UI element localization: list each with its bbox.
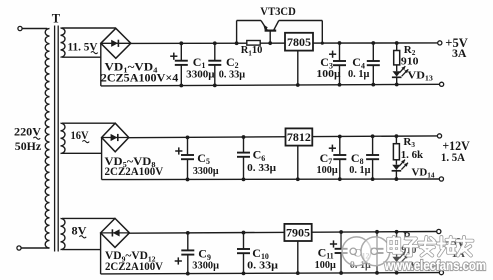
capacitor C8 0.1u <box>366 136 379 179</box>
label 2CZ2A100V (ch3) <box>105 261 164 273</box>
label VD15 <box>410 260 435 273</box>
node C2 bottom <box>213 83 217 87</box>
label VD1~VD4 <box>105 62 158 75</box>
polarity + of C9 <box>175 257 182 264</box>
svg-text:3300μ: 3300μ <box>186 69 215 81</box>
svg-text:2CZ2A100V: 2CZ2A100V <box>105 261 164 273</box>
polarity + of C5 <box>175 147 182 154</box>
bridge rectifier VD1-VD4 <box>101 28 131 58</box>
node C10 bottom <box>242 271 246 275</box>
label 220V 50Hz <box>14 124 42 153</box>
capacitor C11 100u <box>335 232 348 273</box>
label C11 <box>318 245 334 260</box>
label VD9~VD12 <box>105 250 156 263</box>
secondary winding 11.5V <box>61 28 66 57</box>
wire primary bottom to input terminal <box>21 247 49 249</box>
polarity + of C3 <box>329 51 336 58</box>
node VD14 ground <box>395 177 399 181</box>
wire ch3 negative rail <box>129 232 437 234</box>
input terminal bottom (220V line) <box>17 246 21 250</box>
output terminal ch1 return <box>440 82 444 86</box>
svg-text:7905: 7905 <box>286 226 310 240</box>
svg-text:16V: 16V <box>71 128 89 142</box>
svg-text:220V: 220V <box>14 124 41 138</box>
node C12 bottom <box>375 271 379 275</box>
capacitor C2 0.33u <box>208 43 221 85</box>
node C3 top <box>338 41 342 45</box>
output terminal -5V <box>437 229 441 233</box>
output terminal +12V <box>437 134 441 138</box>
transformer label T <box>52 11 61 25</box>
label R3 <box>403 136 415 149</box>
label C2 <box>226 55 239 70</box>
svg-text:3A: 3A <box>452 46 467 60</box>
wire ch2 positive rail <box>129 136 438 138</box>
secondary winding 8V <box>61 218 66 249</box>
LED VD14 <box>392 165 402 171</box>
capacitor C6 0.33u <box>237 137 250 179</box>
node C4 bottom <box>371 83 375 87</box>
capacitor C1 3300u <box>175 43 188 85</box>
value 3300u (C1) <box>186 69 215 81</box>
svg-text:2CZ5A100V×4: 2CZ5A100V×4 <box>101 73 179 85</box>
label 2CZ2A100V (ch2) <box>105 166 164 178</box>
node C12 top <box>375 230 379 234</box>
label VD5~VD8 <box>105 156 156 169</box>
label 3A <box>452 46 467 60</box>
value 910 (R4) <box>401 244 417 256</box>
wire R4 to VD15 <box>396 252 398 257</box>
label VD14 <box>412 167 435 180</box>
wire ch1 ground rail <box>101 84 440 86</box>
node R2 top <box>395 41 399 45</box>
value 910 (R2) <box>401 56 419 68</box>
capacitor C10 0.33u <box>237 233 250 274</box>
wire VD13 to ground rail <box>396 77 398 84</box>
wire 7905 ground pin <box>297 241 299 273</box>
polarity + of C7 <box>329 145 336 152</box>
label C7 <box>320 151 333 166</box>
svg-text:100μ: 100μ <box>315 259 337 271</box>
capacitor C4 0.1u <box>367 43 380 85</box>
resistor R2 910 <box>394 51 400 65</box>
wire R2 top lead <box>396 43 398 51</box>
node C7 bottom <box>338 177 342 181</box>
svg-text:T: T <box>52 11 61 25</box>
node 7905 ground <box>296 271 300 275</box>
label +12V <box>442 138 470 153</box>
node C8 top <box>371 134 375 138</box>
transistor VT 3CD (PNP pass) <box>261 21 279 44</box>
value 0.1u (C8) <box>349 164 371 176</box>
LED VD13 light arrows <box>400 66 409 76</box>
value 0.33u (C10) <box>247 259 279 271</box>
watermark (site logo and text, decorative overlay) <box>341 234 491 273</box>
label R1 10 <box>241 45 263 57</box>
svg-text:0. 33μ: 0. 33μ <box>247 259 279 271</box>
LED VD15 light arrows <box>399 252 408 262</box>
label 8V <box>72 223 87 238</box>
secondary winding 16V <box>61 123 66 153</box>
node C1 bottom <box>179 84 183 88</box>
value 3300u (C9) <box>192 259 219 271</box>
label +5V <box>445 35 468 50</box>
wire ch1 positive rail <box>131 42 438 45</box>
LED VD14 light arrows <box>399 160 408 170</box>
wire secondary ch2 top lead <box>62 122 115 124</box>
svg-text:50Hz: 50Hz <box>15 139 42 153</box>
wire input top to primary <box>22 28 47 30</box>
value 0.33u (C2) <box>219 69 246 81</box>
output terminal ch2 return <box>439 177 443 181</box>
node R4 top <box>395 230 399 234</box>
label C6 <box>253 148 266 163</box>
value 100u (C3) <box>316 68 341 80</box>
wire ch2 ground rail <box>102 178 440 181</box>
resistor R1 10 <box>247 41 260 46</box>
capacitor C12 0.1u <box>371 232 384 273</box>
label 1.5A <box>441 150 465 164</box>
svg-text:0. 1μ: 0. 1μ <box>349 164 371 176</box>
label C8 <box>351 151 364 166</box>
node C7 top <box>338 135 342 139</box>
wire 7812 ground pin <box>297 146 299 180</box>
wire R3 to VD14 <box>395 160 397 165</box>
svg-text:0. 33μ: 0. 33μ <box>219 69 246 81</box>
svg-text:910: 910 <box>401 56 419 68</box>
label 1A <box>452 246 465 260</box>
wire VD14 to ground rail <box>395 171 397 179</box>
wire bridge ch1 left vertex to ground rail <box>100 43 102 86</box>
wire emitter horizontal <box>237 20 261 22</box>
svg-text:8V: 8V <box>72 223 87 237</box>
svg-text:100μ: 100μ <box>317 164 339 176</box>
node C2 top <box>213 41 217 45</box>
wire collector drop <box>321 21 323 44</box>
label VT3CD <box>260 4 296 18</box>
wire ch3 ground rail <box>101 273 440 274</box>
label -5V <box>445 234 466 249</box>
capacitor C9 3300u <box>181 233 194 274</box>
svg-text:VT3CD: VT3CD <box>260 4 296 18</box>
value 100u (C11) <box>315 259 337 271</box>
label C1 <box>193 55 206 70</box>
output terminal +5V <box>438 41 442 45</box>
wire secondary ch1 top lead <box>62 27 116 29</box>
value 0.1u (C12) <box>350 259 372 271</box>
node 7805 ground <box>296 83 300 87</box>
transformer core <box>55 26 59 252</box>
bridge rectifier VD5-VD8 <box>102 123 129 152</box>
svg-text:7812: 7812 <box>287 130 311 144</box>
LED VD15 <box>392 257 402 263</box>
svg-text:100μ: 100μ <box>316 68 341 80</box>
LED VD13 <box>392 71 402 77</box>
capacitor C5 3300u <box>181 137 194 179</box>
wire bridge ch2 left vertex to ground rail <box>101 138 103 180</box>
node emitter riser junction <box>235 41 239 45</box>
label C5 <box>197 151 210 166</box>
wire collector horizontal <box>279 20 323 22</box>
label R2 <box>404 44 416 57</box>
label R4 <box>403 231 415 244</box>
wire secondary ch2 bottom lead <box>62 152 102 154</box>
value 100u (C7) <box>317 164 339 176</box>
label C3 <box>320 55 333 70</box>
wire secondary ch1 bottom lead <box>62 56 101 58</box>
bridge rectifier VD9-VD12 <box>101 218 130 247</box>
node C10 top <box>242 231 246 235</box>
node base junction <box>268 41 272 45</box>
output terminal ch3 return <box>439 270 443 274</box>
label C9 <box>198 247 211 262</box>
node VD13 ground <box>395 83 399 87</box>
svg-text:2CZ2A100V: 2CZ2A100V <box>105 166 164 178</box>
svg-text:3300μ: 3300μ <box>192 259 219 271</box>
value 0.1u (C4) <box>348 68 370 80</box>
label 2CZ5A100V×4 <box>101 73 179 85</box>
wire secondary ch3 top lead <box>62 217 115 219</box>
svg-text:1. 5A: 1. 5A <box>441 150 465 164</box>
label VD13 <box>408 70 434 83</box>
node C8 bottom <box>371 177 375 181</box>
node C11 top <box>339 230 343 234</box>
node C6 top <box>242 135 246 139</box>
label C12 <box>353 245 370 260</box>
wire VD15 to ground rail <box>396 263 398 273</box>
value 1.6k (R3) <box>401 149 424 161</box>
svg-text:1. 6k: 1. 6k <box>401 149 424 161</box>
svg-text:0. 1μ: 0. 1μ <box>348 68 370 80</box>
node C4 top <box>371 41 375 45</box>
input terminal top (220V line) <box>18 26 22 30</box>
regulator U1 7805 <box>285 33 313 51</box>
wire R2 to VD13 <box>396 65 398 71</box>
node C11 bottom <box>339 271 343 275</box>
wire bridge ch3 left vertex to ground rail <box>100 233 102 274</box>
resistor R3 1.6k <box>393 144 399 160</box>
svg-text:7805: 7805 <box>287 35 311 49</box>
node collector junction <box>321 41 324 44</box>
svg-text:R110: R110 <box>241 45 263 57</box>
wire 7805 ground pin <box>297 51 299 85</box>
node C9 top <box>186 231 190 235</box>
label C10 <box>252 246 269 261</box>
node C9 bottom <box>186 272 190 276</box>
regulator U2 7812 <box>286 128 313 145</box>
wire R4 top lead <box>396 232 398 238</box>
polarity + of C11 <box>330 240 337 247</box>
node R3 top <box>395 134 399 138</box>
svg-text:0. 33μ: 0. 33μ <box>247 162 277 174</box>
value 3300u (C5) <box>193 165 219 177</box>
node C1 top <box>179 41 183 45</box>
wire R3 top lead <box>395 136 397 144</box>
svg-text:3300μ: 3300μ <box>193 165 219 177</box>
label 11.5V <box>68 39 98 53</box>
svg-text:www.elecfans.com: www.elecfans.com <box>384 258 486 273</box>
capacitor C3 100u <box>333 43 346 85</box>
label C4 <box>352 55 365 70</box>
wire secondary ch3 bottom lead <box>62 249 101 251</box>
label 16V <box>71 128 90 143</box>
wire emitter riser <box>236 21 238 44</box>
polarity + of C1 <box>170 53 177 60</box>
regulator U3 7905 <box>284 224 311 241</box>
node C6 bottom <box>242 177 246 181</box>
node C5 top <box>186 135 190 139</box>
node C5 bottom <box>186 178 190 182</box>
capacitor C7 100u <box>333 136 346 179</box>
node VD15 ground <box>395 271 399 275</box>
node C3 bottom <box>338 83 342 87</box>
value 0.33u (C6) <box>247 162 277 174</box>
transformer T primary winding <box>45 29 49 249</box>
node 7812 ground <box>296 177 300 181</box>
resistor R4 910 <box>394 238 400 252</box>
